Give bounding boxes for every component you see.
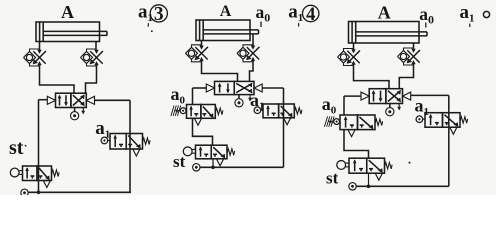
one-way flow control valve (left, diagram 2) <box>186 45 209 62</box>
exhaust triangle of a1 (diagram 3) <box>450 127 457 134</box>
junction st valve 1 supply <box>37 191 41 195</box>
wire right pilot vertical through a1 valve 2 <box>283 88 285 167</box>
pressure source (diagram 2 supply) <box>193 164 200 171</box>
label a0 top of diagram 3 <box>419 4 434 27</box>
cylinder A (diagram 2) double-acting with piston rod <box>196 20 259 41</box>
label a1 of valve a1 diagram 1 <box>95 118 110 141</box>
exhaust triangle of a1 (diagram 1) <box>133 149 140 156</box>
wire right pilot 1 horizontal <box>94 99 130 101</box>
wire cyl2 right port down <box>252 34 254 46</box>
wire FC2 to main valve 3 <box>399 64 413 89</box>
junction st valve 2 supply <box>211 159 215 169</box>
roller actuator of a1 (diagram 2) <box>254 107 263 114</box>
wire FC1 to main valve 2 <box>202 61 238 82</box>
wire st output to left pilot / st supply vertical <box>38 100 40 193</box>
right pilot triangle (diagram 1) <box>86 96 94 104</box>
junction st valve 3 supply <box>367 173 371 188</box>
svg-text:st: st <box>9 137 24 159</box>
svg-text:a: a <box>322 94 331 114</box>
wire a0 output to left pilot 3 <box>343 96 345 115</box>
label a1 of valve a1 diagram 3 <box>415 96 430 119</box>
svg-text:a: a <box>460 2 470 23</box>
exhaust triangle of st (diagram 3) <box>375 173 382 180</box>
exhaust triangle of st (diagram 2) <box>216 159 223 166</box>
exhaust arrow under main valve (diagram 1) <box>81 108 85 115</box>
pressure source under main valve (diagram 3) <box>386 104 394 116</box>
one-way flow control valve (right, diagram 1) <box>81 49 104 66</box>
wire bottom supply line 2 <box>200 166 284 168</box>
wire FC1 to main valve 3 <box>354 65 390 89</box>
wire left pilot 3 horizontal <box>344 95 361 97</box>
3/2 valve a0 (diagram 3) body <box>340 115 375 130</box>
wire cyl3 left port down <box>353 43 355 50</box>
wire cyl1 right port down <box>95 42 97 51</box>
one-way flow control valve (left, diagram 1) <box>24 49 47 66</box>
wire FC2 to main valve 2 <box>250 61 254 82</box>
return spring of a1 (diagram 1) <box>143 138 151 144</box>
exhaust triangle of a0 (diagram 3) <box>348 130 355 137</box>
3/2 valve a0 (diagram 2) body <box>187 105 216 119</box>
wire FC2 to main valve 1 port B <box>86 65 97 93</box>
scan speck between st3 and a1 valve 3 <box>409 162 411 164</box>
wire bottom supply line 1 <box>28 191 131 193</box>
3/2 valve st (diagram 3) body <box>349 158 385 173</box>
wire cyl3 right port down <box>413 43 415 49</box>
pressure source (diagram 1 supply) <box>21 189 28 196</box>
left pilot triangle (diagram 2) <box>206 84 214 92</box>
wire bottom supply line 3 <box>356 185 449 187</box>
main directional valve (diagram 1) body <box>56 93 87 107</box>
right pilot triangle (diagram 3) <box>403 92 411 100</box>
label a0 top of diagram 2 <box>256 2 271 25</box>
pressure source under main valve (diagram 1) <box>70 108 78 120</box>
svg-text:a: a <box>95 118 105 139</box>
limit switch tick a0 diagram 2 <box>260 22 262 28</box>
tick under a1 subscript diagram 1 <box>147 23 149 26</box>
small circle mark top right <box>483 11 489 17</box>
one-way flow control valve (right, diagram 2) <box>237 45 260 62</box>
svg-text:1: 1 <box>469 13 475 25</box>
cylinder A (diagram 1) double-acting with piston rod <box>36 22 107 42</box>
svg-text:0: 0 <box>180 95 186 107</box>
svg-text:a: a <box>171 84 180 104</box>
roller actuator of a0 (diagram 3) <box>334 119 340 125</box>
wire st output to a0 input, diagram 2 <box>193 118 213 145</box>
limit switch tick a0 diagram 3 <box>425 23 427 28</box>
wire cyl1 left port down <box>39 42 41 51</box>
main directional valve (diagram 3) body <box>369 89 402 104</box>
left pilot triangle (diagram 1) <box>47 96 55 104</box>
svg-text:a: a <box>419 4 428 24</box>
hatched exhaust of a0 (diagram 3) <box>324 116 334 126</box>
3/2 valve a1 (diagram 3) body <box>425 113 460 128</box>
return spring of st (diagram 2) <box>227 149 235 155</box>
left pilot triangle (diagram 3) <box>361 92 369 100</box>
return spring of a0 (diagram 3) <box>375 119 383 125</box>
circled number 3 <box>150 4 167 25</box>
svg-text:st: st <box>326 169 339 188</box>
label a1 top right of diagram 2 <box>288 2 303 25</box>
label A of cylinder 3 <box>378 2 391 22</box>
return spring of a1 (diagram 3) <box>460 117 468 123</box>
wire left pilot 2 horizontal <box>193 87 207 89</box>
right pilot triangle (diagram 2) <box>254 84 262 92</box>
svg-text:0: 0 <box>428 12 434 26</box>
label st of start valve 3 <box>326 169 339 188</box>
one-way flow control valve (right, diagram 3) <box>398 48 421 65</box>
svg-text:0: 0 <box>331 105 337 117</box>
svg-text:4: 4 <box>306 5 315 25</box>
pressure source (diagram 3 supply) <box>349 183 356 190</box>
3/2 valve st (diagram 1) body <box>23 166 52 181</box>
roller actuator of a1 (diagram 1) <box>101 137 110 144</box>
label st of start valve 1 <box>9 137 24 159</box>
label a0 of valve a0 diagram 2 <box>171 84 186 107</box>
label a1 of valve a1 diagram 2 <box>250 90 265 113</box>
return spring of a1 (diagram 2) <box>294 108 302 114</box>
return spring of st (diagram 3) <box>385 163 393 169</box>
cylinder A (diagram 3) double-acting with piston rod <box>349 22 428 44</box>
circled number 4 <box>303 5 319 25</box>
wire left pilot 1 <box>39 99 48 101</box>
exhaust arrow under main valve (diagram 3) <box>397 104 401 111</box>
wire right pilot 2 horizontal <box>262 87 284 89</box>
return spring of a0 (diagram 2) <box>215 108 223 114</box>
roller actuator of a1 (diagram 3) <box>416 116 425 123</box>
3/2 valve st (diagram 2) body <box>196 145 228 159</box>
svg-text:A: A <box>220 3 232 20</box>
svg-text:3: 3 <box>154 4 164 25</box>
wire right pilot vertical through a1 valve 3 <box>448 95 450 186</box>
wire right pilot 3 horizontal <box>411 94 449 96</box>
tick under a1 subscript diagram 2 <box>298 23 300 26</box>
exhaust triangle of a1 (diagram 2) <box>284 118 291 125</box>
scan speck top middle-left <box>151 30 153 32</box>
svg-text:a: a <box>256 2 265 22</box>
svg-text:0: 0 <box>264 10 270 24</box>
3/2 valve a1 (diagram 1) body <box>110 134 143 150</box>
push button actuator of st (diagram 2) <box>183 147 195 156</box>
wire st output to a0 input, diagram 3 <box>344 130 369 159</box>
label A of cylinder 1 <box>61 2 74 22</box>
return spring of st (diagram 1) <box>52 170 60 176</box>
pressure source under main valve (diagram 2) <box>235 95 243 107</box>
push button actuator of st (diagram 3) <box>337 161 349 170</box>
wire FC1 to main valve 1 port A <box>40 65 75 93</box>
one-way flow control valve (left, diagram 3) <box>338 49 361 66</box>
svg-text:a: a <box>138 2 148 23</box>
svg-text:A: A <box>378 2 391 22</box>
hatched exhaust of a0 (diagram 2) <box>171 106 181 116</box>
main directional valve (diagram 2) body <box>215 81 255 94</box>
wire cyl2 left port down <box>201 41 203 47</box>
tick under a1 subscript diagram 3 <box>469 24 471 27</box>
push button actuator of st (diagram 1) <box>10 168 22 177</box>
wire a0 output to left pilot 2 <box>192 88 194 105</box>
svg-text:st: st <box>173 152 186 171</box>
exhaust arrow under main valve (diagram 2) <box>248 95 252 102</box>
svg-text:A: A <box>61 2 74 22</box>
svg-text:a: a <box>415 96 424 116</box>
label A of cylinder 2 <box>220 3 232 20</box>
label a0 of valve a0 diagram 3 <box>322 94 337 117</box>
exhaust triangle of a0 (diagram 2) <box>194 118 201 125</box>
label a1 top right of diagram 1 <box>138 2 153 25</box>
label st of start valve 2 <box>173 152 186 171</box>
scan speck near st1 <box>25 145 27 147</box>
wire right pilot vertical through a1 valve 1 <box>129 100 131 192</box>
svg-text:a: a <box>288 2 298 23</box>
3/2 valve a1 (diagram 2) body <box>263 104 294 118</box>
exhaust triangle of st (diagram 1) <box>43 181 50 188</box>
roller actuator of a0 (diagram 2) <box>180 108 186 114</box>
label a1 top right of diagram 3 <box>460 2 475 25</box>
